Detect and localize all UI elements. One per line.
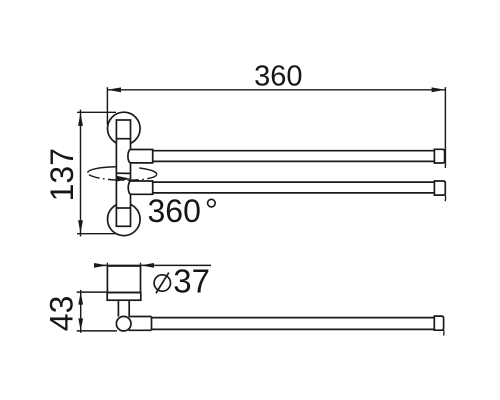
rotation path: swivel ellipse bottom arc (dash-dot, passes in front) xyxy=(88,173,157,180)
dimension 360: right arrowhead xyxy=(432,87,446,92)
top view: lower wall-mount circle xyxy=(108,203,141,236)
side view: arm end cap xyxy=(434,316,443,330)
arm 2: end cap xyxy=(434,181,445,195)
dimension 137: dimension line xyxy=(80,110,82,237)
svg-text:43: 43 xyxy=(44,296,80,332)
dimension dia37: left arrowhead (pointing right) xyxy=(94,263,108,268)
arm 2: bar top edge xyxy=(153,181,435,183)
top view: post upper cap line xyxy=(116,138,130,140)
side view: arm end cap tail stroke xyxy=(443,330,445,335)
dimension 43: bottom extension line xyxy=(77,330,117,332)
rotation direction arrowhead xyxy=(116,176,131,182)
side view: base flange xyxy=(107,293,141,301)
arm 1: pivot connector (rounded left, covers post edge) xyxy=(128,150,153,163)
side view: pivot post left edge xyxy=(117,300,119,316)
top view: upper wall-mount circle xyxy=(108,112,141,145)
svg-text:37: 37 xyxy=(173,263,210,300)
dimension dia37: right arrowhead (pointing left) xyxy=(141,263,155,268)
side view: arm bar bottom edge xyxy=(152,328,435,330)
dimension 137: top extension line xyxy=(77,111,116,113)
dimension 43: dimension line xyxy=(80,290,82,333)
side view: cup right extension overshoot xyxy=(140,263,142,266)
side view: arm bar top edge xyxy=(152,317,435,319)
svg-text:137: 137 xyxy=(44,148,80,201)
arm 2: bar bottom edge xyxy=(153,192,435,194)
dimension 360: dimension line xyxy=(107,89,445,91)
arm 1: bar top edge xyxy=(153,150,435,152)
dimension 43: bottom arrowhead xyxy=(78,318,83,331)
arm 1: bar bottom edge xyxy=(153,160,435,162)
arm 1: end cap xyxy=(434,149,444,163)
dimension 43: top arrowhead xyxy=(78,292,83,305)
side view: cup left extension overshoot xyxy=(106,263,108,266)
dimension 137: top arrowhead xyxy=(78,112,83,126)
side view: arm connector bottom edge xyxy=(129,329,152,331)
dimension dia37: diameter symbol xyxy=(154,273,170,294)
side view: pivot ball circle (covers connector left) xyxy=(116,316,131,331)
side view: arm connector top edge xyxy=(129,316,152,318)
svg-text:360: 360 xyxy=(148,193,201,229)
rotation path: swivel ellipse top arc (dash-dot, passes behind post) xyxy=(88,167,157,174)
dimension 360: right extension line xyxy=(444,87,446,168)
top view: post lower cap line xyxy=(116,207,130,209)
svg-text:360: 360 xyxy=(254,60,302,92)
dimension 137: bottom arrowhead xyxy=(78,220,83,234)
dimension 43: top extension line xyxy=(77,291,108,293)
arm 2: end cap tail stroke xyxy=(444,195,446,201)
dimension 137: bottom extension line xyxy=(77,233,118,235)
top view: vertical post body (hides arcs behind) xyxy=(116,120,130,226)
side view: arm connector right joint line xyxy=(151,317,153,331)
top view: post mid joint line xyxy=(116,172,130,174)
side view: mount cup body xyxy=(107,266,140,293)
dimension 360: left extension line xyxy=(106,87,108,125)
dimension dia37: dimension line xyxy=(96,264,211,266)
side view: pivot post right edge xyxy=(128,300,130,316)
dimension 360: left arrowhead xyxy=(107,87,121,92)
label 360 degrees: degree circle xyxy=(208,199,216,207)
arm 2: pivot connector (rounded left, covers post edge) xyxy=(128,181,152,194)
